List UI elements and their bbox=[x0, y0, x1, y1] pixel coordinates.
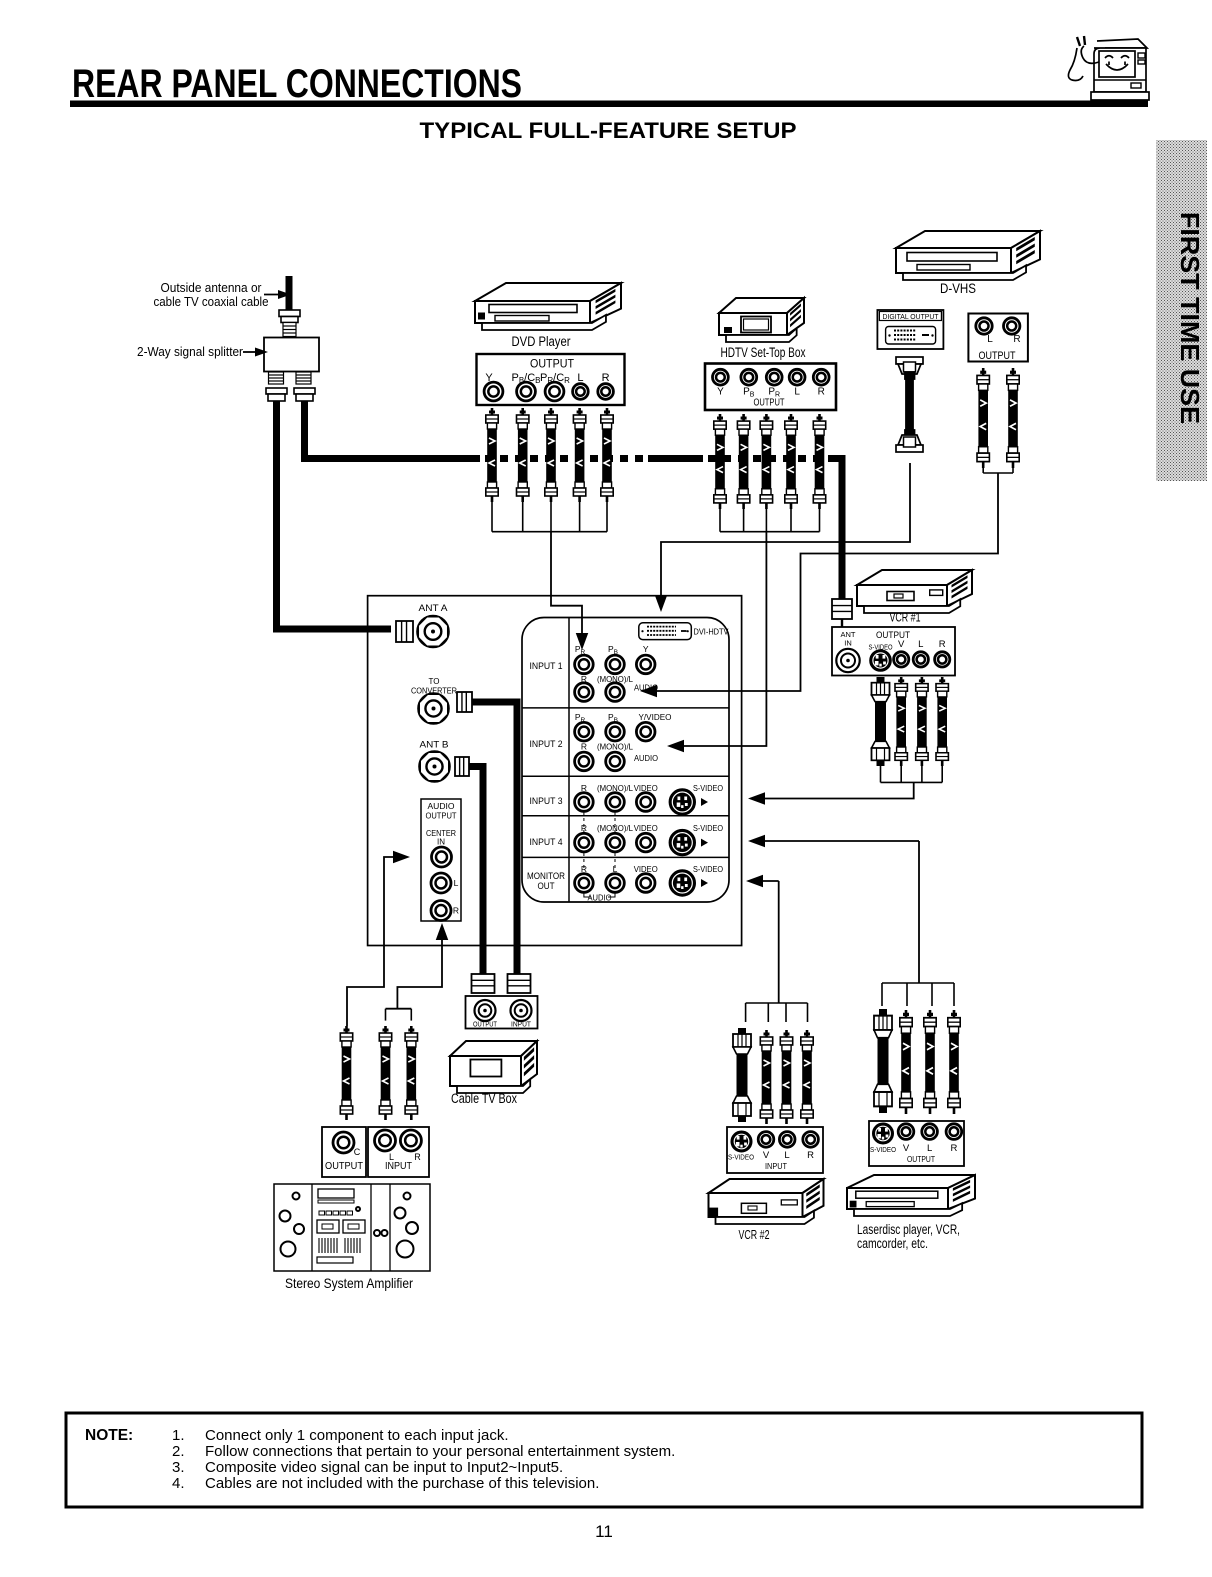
svg-text:AUDIO: AUDIO bbox=[634, 753, 658, 763]
svg-text:L: L bbox=[794, 387, 800, 398]
svg-text:V: V bbox=[903, 1143, 910, 1154]
svg-text:DVI-HDTV: DVI-HDTV bbox=[694, 627, 729, 637]
svg-text:D-VHS: D-VHS bbox=[940, 281, 976, 296]
svg-text:S-VIDEO: S-VIDEO bbox=[693, 823, 723, 833]
svg-text:INPUT 1: INPUT 1 bbox=[530, 661, 563, 671]
svg-text:Outside antenna or: Outside antenna or bbox=[161, 281, 262, 295]
svg-text:IN: IN bbox=[437, 838, 445, 847]
svg-text:IN: IN bbox=[844, 639, 852, 648]
svg-text:INPUT 3: INPUT 3 bbox=[530, 796, 563, 806]
svg-text:OUTPUT: OUTPUT bbox=[979, 350, 1016, 362]
svg-text:Cables are not included with t: Cables are not included with the purchas… bbox=[205, 1475, 599, 1492]
svg-text:INPUT: INPUT bbox=[511, 1022, 532, 1029]
svg-text:1.: 1. bbox=[172, 1427, 185, 1444]
svg-text:DVD Player: DVD Player bbox=[512, 334, 571, 349]
svg-text:R: R bbox=[453, 906, 459, 916]
svg-text:R: R bbox=[1013, 334, 1020, 345]
svg-text:L: L bbox=[927, 1143, 932, 1154]
svg-text:Y: Y bbox=[717, 387, 724, 398]
svg-text:11: 11 bbox=[595, 1522, 613, 1541]
svg-text:INPUT 2: INPUT 2 bbox=[530, 739, 563, 749]
svg-text:Stereo System Amplifier: Stereo System Amplifier bbox=[285, 1275, 413, 1291]
svg-text:Composite video signal can be: Composite video signal can be input to I… bbox=[205, 1459, 563, 1476]
svg-text:Y: Y bbox=[643, 644, 649, 654]
svg-text:3.: 3. bbox=[172, 1459, 185, 1476]
svg-text:cable TV coaxial cable: cable TV coaxial cable bbox=[154, 295, 269, 309]
svg-text:S-VIDEO: S-VIDEO bbox=[693, 864, 723, 874]
svg-text:Y/VIDEO: Y/VIDEO bbox=[639, 712, 672, 722]
svg-text:TO: TO bbox=[429, 677, 440, 686]
svg-text:L: L bbox=[987, 334, 993, 345]
svg-text:Cable TV Box: Cable TV Box bbox=[451, 1091, 517, 1106]
svg-text:OUTPUT: OUTPUT bbox=[907, 1154, 935, 1164]
svg-text:MONITOR: MONITOR bbox=[527, 871, 565, 881]
svg-text:R: R bbox=[414, 1152, 421, 1162]
svg-text:DIGITAL OUTPUT: DIGITAL OUTPUT bbox=[883, 312, 940, 321]
svg-text:VCR #1: VCR #1 bbox=[890, 610, 921, 625]
svg-text:R: R bbox=[581, 742, 587, 752]
svg-text:INPUT: INPUT bbox=[765, 1161, 787, 1171]
svg-text:R: R bbox=[602, 372, 610, 384]
svg-text:Connect only 1 component to ea: Connect only 1 component to each input j… bbox=[205, 1427, 509, 1444]
svg-text:R: R bbox=[950, 1143, 957, 1154]
svg-text:AUDIO: AUDIO bbox=[588, 894, 612, 903]
svg-text:INPUT 4: INPUT 4 bbox=[530, 837, 563, 847]
svg-text:V: V bbox=[763, 1150, 770, 1161]
svg-text:L: L bbox=[454, 878, 459, 888]
svg-text:OUTPUT: OUTPUT bbox=[754, 397, 785, 409]
svg-text:R: R bbox=[939, 639, 946, 650]
svg-text:R: R bbox=[807, 1150, 814, 1161]
svg-text:ANT B: ANT B bbox=[420, 740, 449, 750]
svg-text:4.: 4. bbox=[172, 1475, 185, 1492]
svg-text:NOTE:: NOTE: bbox=[85, 1427, 133, 1444]
svg-text:C: C bbox=[354, 1147, 361, 1157]
svg-text:L: L bbox=[784, 1150, 789, 1161]
svg-text:L: L bbox=[918, 639, 923, 650]
svg-text:L: L bbox=[577, 372, 583, 384]
svg-text:INPUT: INPUT bbox=[385, 1160, 413, 1172]
svg-text:VCR #2: VCR #2 bbox=[739, 1227, 770, 1242]
svg-text:V: V bbox=[898, 639, 905, 650]
svg-text:FIRST TIME USE: FIRST TIME USE bbox=[1175, 212, 1205, 424]
svg-text:S-VIDEO: S-VIDEO bbox=[693, 783, 723, 793]
svg-text:2.: 2. bbox=[172, 1443, 185, 1460]
svg-text:Laserdisc player, VCR,: Laserdisc player, VCR, bbox=[857, 1222, 960, 1237]
svg-text:AUDIO: AUDIO bbox=[428, 802, 455, 811]
svg-text:camcorder, etc.: camcorder, etc. bbox=[857, 1236, 928, 1251]
svg-text:TYPICAL FULL-FEATURE SETUP: TYPICAL FULL-FEATURE SETUP bbox=[420, 118, 797, 143]
svg-text:OUTPUT: OUTPUT bbox=[325, 1160, 364, 1172]
svg-text:OUT: OUT bbox=[538, 881, 555, 891]
svg-text:OUTPUT: OUTPUT bbox=[530, 357, 575, 371]
svg-text:OUTPUT: OUTPUT bbox=[473, 1022, 498, 1029]
svg-text:REAR PANEL CONNECTIONS: REAR PANEL CONNECTIONS bbox=[72, 62, 522, 106]
svg-text:VIDEO: VIDEO bbox=[634, 823, 658, 833]
svg-text:(MONO)/L: (MONO)/L bbox=[597, 742, 633, 752]
svg-text:S-VIDEO: S-VIDEO bbox=[870, 1145, 896, 1154]
svg-text:OUTPUT: OUTPUT bbox=[426, 812, 457, 821]
svg-text:Follow connections that pertai: Follow connections that pertain to your … bbox=[205, 1443, 675, 1460]
svg-text:ANT A: ANT A bbox=[419, 603, 448, 613]
svg-text:R: R bbox=[818, 387, 825, 398]
svg-text:OUTPUT: OUTPUT bbox=[876, 630, 910, 641]
svg-text:S-VIDEO: S-VIDEO bbox=[728, 1153, 754, 1162]
svg-text:2-Way signal splitter: 2-Way signal splitter bbox=[137, 345, 243, 359]
svg-text:HDTV Set-Top Box: HDTV Set-Top Box bbox=[721, 345, 806, 360]
